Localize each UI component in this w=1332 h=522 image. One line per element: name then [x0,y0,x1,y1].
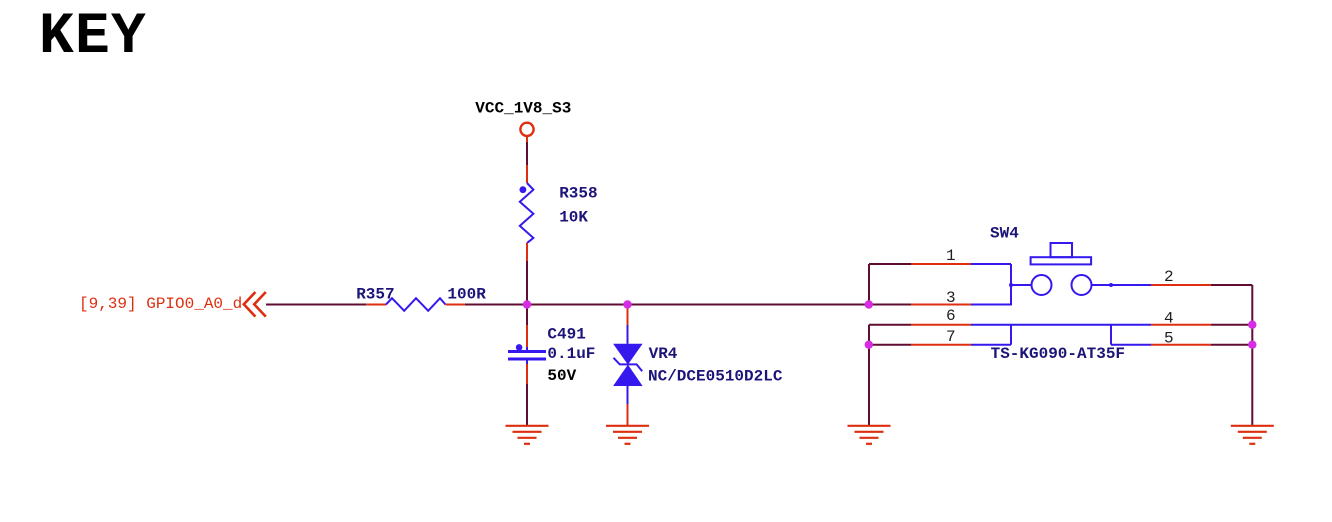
switch SW4 left contact [1009,275,1052,295]
svg-text:1: 1 [946,247,956,265]
pin 3 symbol lead [971,304,1011,306]
diode VR4 TVS [613,325,643,404]
junction pin4 right [1248,321,1256,329]
switch SW4 button cap [1051,243,1073,257]
pin 7 symbol lead [971,325,1011,345]
power symbol VCC_1V8_S3 circle [520,123,533,136]
svg-text:2: 2 [1164,268,1174,286]
ground under switch right [1231,426,1274,444]
pin 1 symbol lead [971,264,1011,306]
wire node A to VR4 node [627,304,629,307]
wire pin1 vertical [868,264,870,305]
diode VR4 top pin [627,305,629,326]
wire R358 to node A [526,261,528,305]
junction node VR4 [623,300,631,308]
svg-text:NC/DCE0510D2LC: NC/DCE0510D2LC [648,368,783,386]
svg-text:6: 6 [946,307,956,325]
wire pin7 horizontal [869,344,911,346]
port chevron GPIO0_A0_d [244,292,266,317]
resistor R357 left pin [366,304,386,306]
svg-text:R357: R357 [356,286,394,304]
pin 6 stub [911,324,971,326]
pin 5 stub [1151,344,1211,346]
pin 5 symbol lead [1111,325,1151,345]
svg-text:0.1uF: 0.1uF [547,345,595,363]
resistor R357 [386,298,446,311]
resistor R358 [520,183,534,243]
wire right vertical to ground [1251,285,1253,426]
capacitor C491 bottom pin [526,364,528,384]
junction pin7 row [865,341,873,349]
wire pin6 horizontal [869,324,911,326]
resistor R357 right pin [446,304,465,306]
svg-text:3: 3 [946,289,956,307]
diode VR4 bottom pin [627,404,629,426]
switch SW4 actuator bar [1031,257,1092,264]
switch SW4 right contact [1072,275,1152,295]
wire pin1 horizontal [869,263,911,265]
wire node A to C491 [526,305,528,326]
wire C491 to ground [526,384,528,426]
power symbol VCC_1V8_S3 pin [526,136,528,183]
pin 1 stub [911,263,971,265]
junction node A [523,300,531,308]
wire VCC to R358 [526,142,528,165]
ground under VR4 [606,426,649,444]
svg-text:SW4: SW4 [990,225,1019,243]
capacitor C491 top pin [526,325,528,347]
junction pin5 right [1248,341,1256,349]
capacitor C491 [508,344,546,364]
ground under C491 [506,426,549,444]
wire pin6 vertical to ground [868,325,870,426]
svg-text:[9,39] GPIO0_A0_d: [9,39] GPIO0_A0_d [79,295,242,313]
wire R357 to switch [465,304,911,306]
ground under switch left [848,426,891,444]
wire pin5 to right vertical [1211,344,1252,346]
wire pin4 to right vertical [1211,324,1252,326]
pin 6 to pin 4 symbol lead [971,324,1151,326]
wire port to R357 [266,304,366,306]
svg-text:KEY: KEY [39,5,147,70]
pin 2 stub [1151,284,1211,286]
svg-text:50V: 50V [547,367,576,385]
svg-text:5: 5 [1164,329,1174,347]
junction pin3 row [865,300,873,308]
svg-text:4: 4 [1164,310,1174,328]
pin 4 stub [1151,324,1211,326]
svg-text:VCC_1V8_S3: VCC_1V8_S3 [475,99,571,117]
svg-text:100R: 100R [447,286,486,304]
svg-text:10K: 10K [559,209,588,227]
pin 7 stub [911,344,971,346]
pin 3 stub [911,304,971,306]
svg-text:TS-KG090-AT35F: TS-KG090-AT35F [991,345,1125,363]
svg-text:C491: C491 [547,325,585,343]
svg-text:7: 7 [946,328,956,346]
resistor R358 bottom pin [526,243,528,261]
wire pin2 to right vertical [1211,284,1252,286]
svg-text:R358: R358 [559,185,597,203]
svg-text:VR4: VR4 [649,345,678,363]
